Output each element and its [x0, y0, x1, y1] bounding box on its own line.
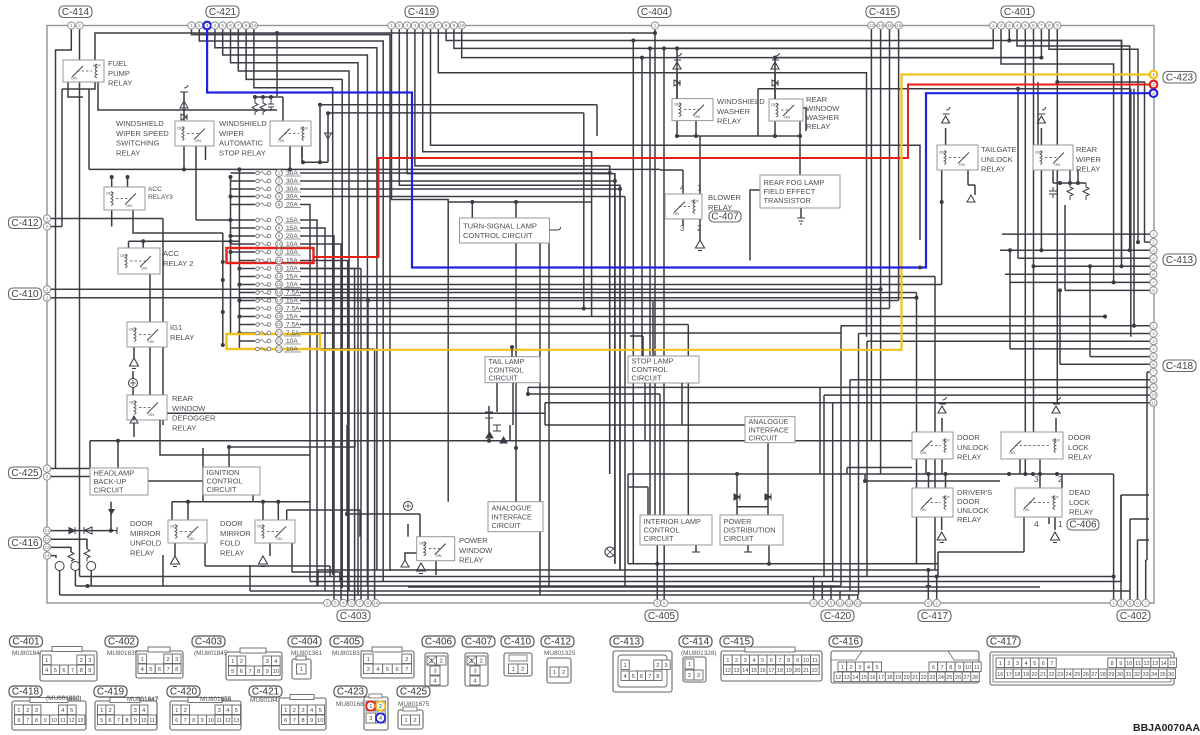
junction	[229, 175, 233, 179]
svg-text:16: 16	[760, 668, 766, 674]
pin C-415-13	[868, 22, 875, 29]
wire	[774, 72, 776, 99]
pinout label C-420	[167, 686, 200, 698]
wire C-410 pin2 bus	[51, 297, 917, 299]
svg-text:6: 6	[932, 665, 935, 671]
wire	[768, 545, 770, 564]
svg-text:(MU801860): (MU801860)	[46, 695, 82, 702]
svg-text:7: 7	[405, 667, 408, 673]
wire C-418 pin11	[545, 402, 1150, 404]
wire	[583, 113, 585, 309]
pin C-403-2	[332, 599, 339, 606]
svg-text:1: 1	[231, 659, 234, 665]
svg-text:1: 1	[46, 287, 49, 292]
svg-text:7: 7	[71, 668, 74, 674]
wire	[300, 244, 341, 603]
svg-text:6: 6	[229, 23, 232, 28]
svg-text:11: 11	[1151, 400, 1156, 405]
pinout label C-425	[397, 686, 430, 698]
pinout label C-419	[94, 686, 127, 698]
svg-text:C-420: C-420	[170, 687, 198, 698]
svg-text:10: 10	[277, 242, 282, 247]
wire	[318, 569, 938, 571]
svg-text:2: 2	[166, 657, 169, 663]
pin C-412-1	[43, 215, 50, 222]
wire	[133, 347, 135, 358]
svg-text:10: 10	[141, 718, 147, 724]
wire	[250, 590, 1130, 592]
wire	[1146, 559, 1147, 561]
wire fuse feed	[239, 268, 255, 270]
svg-text:15: 15	[277, 282, 282, 287]
svg-text:11: 11	[217, 718, 222, 724]
pin C-418-4	[1150, 345, 1157, 352]
motor M3	[87, 562, 96, 571]
svg-text:5: 5	[350, 601, 353, 606]
junction	[1132, 324, 1136, 328]
svg-text:3: 3	[812, 601, 815, 606]
pin C-416-14	[43, 552, 50, 559]
junction	[675, 134, 679, 138]
wire	[346, 425, 348, 514]
svg-text:20: 20	[794, 668, 800, 674]
wire	[663, 48, 665, 515]
ground dead lock	[1051, 532, 1060, 543]
wire	[228, 447, 230, 467]
pinout label C-417	[987, 636, 1020, 648]
svg-text:7: 7	[117, 718, 120, 724]
svg-text:21: 21	[277, 331, 282, 336]
wire	[300, 300, 899, 302]
wire	[511, 347, 513, 357]
pinout label C-410	[501, 636, 534, 648]
svg-text:22: 22	[812, 668, 818, 674]
pin C-419-2	[396, 22, 403, 29]
svg-text:1: 1	[70, 23, 73, 28]
wire C-421 pin9 fan	[254, 30, 333, 576]
svg-text:MU801841: MU801841	[12, 650, 44, 657]
connector label C-413	[1163, 254, 1196, 266]
svg-text:1: 1	[1152, 232, 1155, 237]
svg-text:16: 16	[997, 672, 1003, 678]
wire C-414 pin1	[56, 30, 72, 469]
svg-text:4: 4	[1152, 91, 1155, 96]
junction	[366, 299, 370, 303]
svg-text:25: 25	[946, 675, 952, 681]
wire	[515, 448, 517, 502]
wire	[90, 440, 912, 442]
circuit POWER DISTRIBUTION	[720, 515, 783, 545]
junction	[221, 260, 225, 264]
pinout connector C-423	[364, 694, 388, 730]
end cap	[111, 527, 117, 534]
wire C-421 pin5 fan	[223, 30, 368, 587]
junction	[767, 562, 771, 566]
pin C-401-8	[1046, 22, 1053, 29]
svg-text:2: 2	[398, 23, 401, 28]
junction	[1088, 264, 1092, 268]
junction	[514, 446, 518, 450]
svg-text:2: 2	[379, 704, 382, 710]
svg-text:C-423: C-423	[337, 687, 365, 698]
junction	[1016, 87, 1020, 91]
svg-text:4: 4	[414, 23, 417, 28]
wire	[628, 563, 938, 565]
wire	[142, 241, 144, 250]
svg-text:13: 13	[734, 668, 740, 674]
wire motor3 out	[90, 571, 92, 587]
ground windshield washer	[673, 53, 682, 69]
svg-text:28: 28	[972, 675, 978, 681]
svg-text:1: 1	[100, 708, 103, 714]
svg-text:11: 11	[974, 665, 980, 671]
pin C-421-6	[227, 22, 234, 29]
relay POWER WINDOW	[417, 537, 455, 561]
wire bus C	[222, 233, 224, 345]
pin C-401-5	[1022, 22, 1029, 29]
svg-text:ON: ON	[959, 162, 965, 167]
svg-text:8: 8	[301, 718, 304, 724]
svg-text:30A: 30A	[286, 194, 298, 201]
fuse bank	[256, 170, 301, 354]
svg-text:C-412: C-412	[544, 637, 572, 648]
wire	[301, 146, 303, 158]
pin C-416-13	[43, 544, 50, 551]
wire C-401 pin8	[1049, 30, 1138, 243]
svg-text:10: 10	[1151, 393, 1157, 398]
wire	[695, 121, 697, 136]
svg-text:6: 6	[109, 718, 112, 724]
svg-text:9: 9	[453, 23, 456, 28]
svg-text:20A: 20A	[286, 202, 298, 209]
capacitor	[1049, 187, 1057, 198]
pin C-420-5	[845, 599, 852, 606]
pinout connector C-412	[547, 658, 571, 683]
wire	[659, 394, 661, 515]
svg-text:1: 1	[190, 23, 193, 28]
resistor	[1083, 183, 1089, 200]
wire	[300, 324, 688, 326]
svg-text:23: 23	[1057, 672, 1063, 678]
wire fog feed	[799, 136, 801, 175]
svg-text:19: 19	[277, 314, 282, 319]
pinout connector C-419	[95, 698, 157, 731]
wire	[408, 586, 1040, 588]
wire	[1133, 89, 1135, 326]
svg-text:36: 36	[1168, 672, 1174, 678]
svg-text:OFF: OFF	[942, 495, 951, 500]
connector label C-417	[918, 610, 951, 622]
svg-text:OFF: OFF	[1051, 495, 1060, 500]
wire C-421 pin2 fan	[199, 30, 383, 582]
pinout label C-414	[679, 636, 712, 648]
pin C-401-1	[990, 22, 997, 29]
wire	[847, 467, 912, 469]
wire fuse feed	[231, 243, 256, 245]
svg-text:6: 6	[284, 718, 287, 724]
svg-text:23: 23	[929, 675, 935, 681]
wire	[300, 316, 1105, 318]
wire	[496, 383, 498, 412]
connector label C-405	[645, 610, 678, 622]
wire fuse feed	[231, 204, 256, 206]
pinout label C-405	[330, 636, 363, 648]
svg-text:C-414: C-414	[682, 637, 710, 648]
connector label C-419	[405, 6, 438, 18]
svg-text:4: 4	[752, 658, 755, 664]
junction	[1038, 472, 1042, 476]
wire	[928, 474, 930, 488]
connector label C-416	[9, 537, 42, 549]
junction	[318, 103, 322, 107]
wire C-418 pin9	[528, 386, 1150, 388]
svg-text:2: 2	[78, 23, 81, 28]
svg-text:2: 2	[46, 224, 49, 229]
svg-text:30A: 30A	[286, 186, 298, 193]
svg-text:2: 2	[1152, 82, 1155, 87]
svg-text:17: 17	[878, 675, 884, 681]
wire C-415 pin1 drop	[870, 26, 872, 441]
pinout connector C-405	[361, 647, 414, 678]
pin C-417-2	[933, 599, 940, 606]
wire C-413 pin8	[1065, 289, 1150, 291]
relay DOOR LOCK	[1001, 432, 1063, 459]
diode	[772, 80, 778, 86]
junction	[927, 472, 931, 476]
wire	[249, 565, 251, 591]
pin C-418-8	[1150, 376, 1157, 383]
svg-text:31: 31	[1126, 672, 1132, 678]
wire fuse feed	[239, 308, 255, 310]
svg-text:2: 2	[413, 718, 416, 724]
circuit IGNITION CONTROL	[203, 467, 260, 495]
svg-text:19: 19	[895, 675, 901, 681]
pinout label C-401	[10, 636, 43, 648]
svg-text:29: 29	[1108, 672, 1114, 678]
pin C-401-3	[1006, 22, 1013, 29]
pin C-415-16	[895, 22, 902, 29]
svg-text:8: 8	[1048, 23, 1051, 28]
junction	[1008, 248, 1012, 252]
diode pair	[485, 412, 507, 443]
junction	[926, 568, 930, 572]
svg-text:27: 27	[964, 675, 970, 681]
wire	[405, 553, 417, 560]
svg-text:8: 8	[192, 718, 195, 724]
svg-text:4: 4	[342, 601, 345, 606]
pinout connector C-402	[136, 647, 183, 678]
stub	[744, 551, 752, 553]
diode	[674, 80, 680, 86]
wire	[619, 185, 621, 570]
pinout connector C-415	[721, 647, 822, 681]
wire	[509, 425, 511, 441]
ground	[401, 560, 409, 570]
diode	[181, 114, 187, 120]
svg-text:26: 26	[1083, 672, 1089, 678]
svg-text:C-406: C-406	[425, 637, 453, 648]
pin C-418-1	[1150, 322, 1157, 329]
wire fuse feed	[231, 251, 256, 253]
svg-text:5: 5	[1129, 601, 1132, 606]
pin C-413-2	[1150, 239, 1157, 246]
svg-text:OFF: OFF	[419, 541, 428, 546]
svg-text:18: 18	[777, 668, 783, 674]
wire C-405 pin6	[663, 545, 665, 603]
svg-text:14: 14	[742, 668, 748, 674]
wire fuse feed	[231, 235, 256, 237]
wire	[1069, 170, 1071, 183]
wire fuse feed	[239, 276, 255, 278]
svg-text:7: 7	[26, 718, 29, 724]
svg-text:3: 3	[858, 665, 861, 671]
wire C-415 pin4 drop	[898, 26, 900, 301]
pin C-419-4	[411, 22, 418, 29]
wire	[329, 566, 331, 577]
svg-text:2: 2	[562, 670, 565, 676]
symbol defogger	[129, 379, 138, 388]
svg-text:C-403: C-403	[340, 611, 368, 622]
wire C-412 pin2	[51, 226, 62, 228]
svg-text:32: 32	[1134, 672, 1140, 678]
svg-text:10: 10	[965, 665, 971, 671]
svg-text:1: 1	[284, 708, 287, 714]
wire	[676, 72, 678, 99]
svg-text:15: 15	[751, 668, 757, 674]
wire C-419 pin9 fan	[454, 30, 993, 49]
svg-text:8: 8	[1111, 661, 1114, 667]
svg-text:7: 7	[237, 23, 240, 28]
svg-text:1: 1	[688, 662, 691, 668]
svg-text:13: 13	[277, 266, 282, 271]
wire	[925, 459, 927, 474]
wire	[419, 514, 421, 537]
junction	[915, 296, 919, 300]
pin C-415-14	[877, 22, 884, 29]
wire	[1040, 128, 1042, 145]
junction	[261, 95, 265, 99]
svg-text:8: 8	[787, 658, 790, 664]
wire C-404 pin1 drop	[654, 30, 656, 516]
wire C-417 pin2 feed	[936, 577, 938, 604]
wire C-413 pin3	[1000, 249, 1150, 251]
motor M2	[71, 562, 80, 571]
wire fuse feed	[231, 227, 256, 229]
junction	[1136, 240, 1140, 244]
svg-text:2: 2	[1152, 331, 1155, 336]
svg-text:4: 4	[867, 665, 870, 671]
svg-text:1: 1	[512, 667, 515, 673]
wire	[89, 441, 91, 468]
pinout connector C-404	[292, 656, 311, 679]
wire	[1059, 290, 1061, 364]
wire	[448, 201, 591, 203]
svg-text:13: 13	[44, 545, 50, 550]
junction	[182, 167, 186, 171]
pin C-418-6	[1150, 361, 1157, 368]
svg-text:C-407: C-407	[711, 211, 739, 222]
svg-text:ON: ON	[920, 450, 926, 455]
ground tailgate relay	[942, 107, 951, 123]
wire	[941, 517, 943, 530]
svg-text:4: 4	[1152, 256, 1155, 261]
junction	[227, 445, 231, 449]
svg-text:20: 20	[904, 675, 910, 681]
svg-text:2: 2	[184, 708, 187, 714]
wire ACC relay2 feed	[129, 240, 240, 242]
connector label C-415	[866, 6, 899, 18]
ground IG1	[130, 358, 139, 369]
junction	[229, 234, 233, 238]
junction	[640, 56, 644, 60]
svg-text:10: 10	[51, 718, 57, 724]
wire	[641, 58, 643, 356]
junction	[773, 56, 777, 60]
svg-text:17: 17	[277, 298, 282, 303]
pin C-425-1	[43, 465, 50, 472]
wire	[528, 393, 660, 395]
pinout connector C-413	[613, 651, 672, 692]
svg-text:1: 1	[726, 658, 729, 664]
pinout connector C-410	[504, 653, 532, 676]
wire C-413 pin4	[1018, 257, 1150, 259]
wire	[252, 495, 254, 502]
wire	[320, 104, 597, 106]
junction	[1120, 264, 1124, 268]
svg-text:9: 9	[1152, 385, 1155, 390]
svg-text:2: 2	[46, 295, 49, 300]
pin C-410-1	[43, 286, 50, 293]
junction	[1128, 248, 1132, 252]
svg-text:C-405: C-405	[333, 637, 361, 648]
wire	[269, 543, 271, 556]
junction	[237, 167, 241, 171]
wire C-419 pin2 fan	[399, 30, 620, 571]
svg-text:10A: 10A	[286, 266, 298, 273]
svg-text:4: 4	[1016, 23, 1019, 28]
svg-text:5: 5	[421, 23, 424, 28]
wire	[840, 326, 842, 586]
wire	[183, 146, 185, 169]
wire C-419 pin1 fan	[392, 30, 449, 502]
svg-text:C-416: C-416	[832, 637, 860, 648]
wire	[317, 570, 319, 586]
relay IG1	[127, 322, 167, 347]
wire	[1146, 372, 1148, 560]
wire	[292, 571, 340, 573]
pin C-413-7	[1150, 279, 1157, 286]
wire	[255, 96, 283, 98]
pin C-419-7	[435, 22, 442, 29]
svg-text:C-406: C-406	[1069, 519, 1097, 530]
pin C-420-3	[827, 599, 834, 606]
junction	[229, 218, 233, 222]
wire fuse18 out	[300, 292, 917, 294]
svg-text:12: 12	[44, 537, 50, 542]
relay WINDSHIELD WIPER SPEED SWITCHING	[175, 121, 214, 146]
junction	[141, 239, 145, 243]
svg-text:7: 7	[293, 718, 296, 724]
wire	[737, 506, 768, 508]
wire	[695, 545, 697, 552]
svg-text:2: 2	[80, 658, 83, 664]
resistor cluster	[252, 97, 274, 115]
wire	[286, 510, 288, 520]
svg-text:3: 3	[473, 669, 476, 675]
pin C-403-5	[356, 599, 363, 606]
junction	[1039, 56, 1043, 60]
pin C-401-4	[1014, 22, 1021, 29]
